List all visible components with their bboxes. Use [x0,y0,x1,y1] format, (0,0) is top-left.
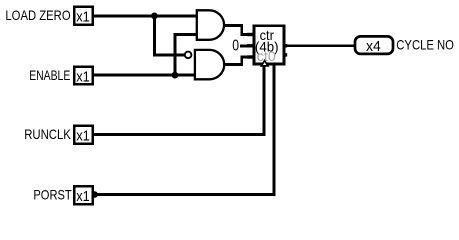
wire constant 0 to ctr data port [240,44,253,47]
ctr port tab output [283,44,287,47]
wire AND gate U1 output to ctr load port [224,26,254,35]
ctr port tab data [247,44,254,47]
wire ENABLE riser up to AND gate U1 input B [175,35,198,76]
ctr clock triangle [261,61,268,66]
svg-text:PORST: PORST [33,186,72,202]
AND gate U1 [197,10,224,40]
node junction on LOAD ZERO net [151,13,158,20]
svg-text:x1: x1 [76,68,90,85]
svg-text:RUNCLK: RUNCLK [24,126,71,142]
svg-text:LOAD ZERO: LOAD ZERO [5,7,70,23]
svg-text:x4: x4 [366,38,381,55]
wire LOAD ZERO riser down to inverter bubble of gate U2 [154,16,184,55]
node junction on ENABLE net [172,72,179,79]
wire LOAD ZERO to AND gate U1 input A [93,14,198,17]
ctr port tab load [247,33,254,36]
counter block U3 [254,26,284,64]
svg-text:ENABLE: ENABLE [29,67,70,83]
svg-text:CYCLE NO: CYCLE NO [396,37,454,53]
bus width marker x4 [355,36,393,54]
svg-text:x1: x1 [76,128,90,145]
wire PORST to ctr reset port [93,65,274,195]
svg-text:x1: x1 [76,188,90,205]
svg-text:0: 0 [232,38,239,55]
ctr port tab unconnected [283,53,287,56]
wire ENABLE to gate U2 input B [93,74,198,77]
wire gate U2 output to ctr count-enable port [224,57,254,65]
svg-text:ct0: ct0 [257,48,276,64]
gate U2 (AND with inverted input) [195,50,224,79]
svg-text:x1: x1 [76,9,90,26]
node junction at PORST port [91,191,98,198]
wire ctr output to x4 bus marker [285,44,355,47]
inverter bubble on gate U2 input [185,52,192,59]
ctr port tab count-enable [247,55,254,58]
wire RUNCLK to ctr clock port [93,65,264,135]
